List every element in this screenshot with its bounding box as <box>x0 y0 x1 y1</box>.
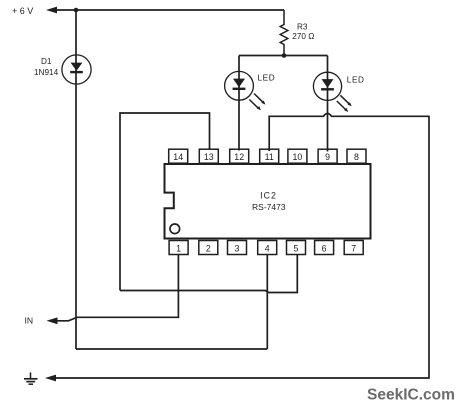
wire LED rail <box>239 55 328 57</box>
pin 1 <box>169 241 188 255</box>
diode D1 <box>62 55 91 84</box>
junction node top rail / D1 <box>74 8 79 13</box>
svg-text:4: 4 <box>265 244 270 254</box>
svg-text:R3: R3 <box>297 22 308 31</box>
svg-text:1: 1 <box>176 244 181 254</box>
pin 13 <box>199 149 218 163</box>
wire pin 11 wrap (up, right, down right side, bottom to ground) <box>54 113 429 378</box>
pin 14 <box>169 149 188 163</box>
svg-text:9: 9 <box>325 152 330 162</box>
svg-text:8: 8 <box>354 152 359 162</box>
ground <box>24 372 38 384</box>
svg-text:LED: LED <box>347 75 365 84</box>
wire pin 13 wrap (up, left, down to bottom web) <box>120 113 210 291</box>
arrow IN <box>47 317 58 324</box>
wire LED2 vertical (rail to pin 9) <box>327 56 329 152</box>
wire pin 1 vertical to IN <box>54 254 178 321</box>
svg-text:+ 6 V: + 6 V <box>12 6 33 16</box>
wire LED1 vertical (rail to pin 12) <box>238 56 240 151</box>
pin 6 <box>315 241 334 255</box>
svg-text:D1: D1 <box>41 57 52 66</box>
junction node R3 / LED rail <box>282 53 287 58</box>
svg-text:11: 11 <box>265 152 274 162</box>
LED LED2 <box>313 72 351 112</box>
svg-text:RS-7473: RS-7473 <box>252 202 286 212</box>
pin 3 <box>228 241 247 255</box>
svg-text:3: 3 <box>235 244 240 254</box>
pin 2 <box>199 241 218 255</box>
svg-text:13: 13 <box>204 152 214 162</box>
wire D1 branch vertical <box>75 10 77 349</box>
svg-text:6: 6 <box>322 244 327 254</box>
LED LED1 <box>225 71 266 110</box>
svg-text:LED: LED <box>258 74 276 83</box>
svg-text:2: 2 <box>206 244 211 254</box>
wire pin 4 vertical <box>266 254 268 349</box>
svg-text:270 Ω: 270 Ω <box>292 32 314 41</box>
wire top supply rail <box>54 9 284 11</box>
svg-text:14: 14 <box>173 152 183 162</box>
power arrow <box>46 7 57 14</box>
pin 1 indicator circle <box>170 224 180 234</box>
pin 11 <box>260 149 279 163</box>
svg-text:IC2: IC2 <box>260 191 277 201</box>
resistor R3 <box>280 10 288 56</box>
svg-text:5: 5 <box>294 244 299 254</box>
pin 8 <box>347 149 366 163</box>
svg-text:12: 12 <box>234 152 244 162</box>
arrow ground lead <box>45 375 56 382</box>
wire bottom web horizontal with pin 5 drop <box>120 254 297 293</box>
pin 9 <box>318 149 337 163</box>
pin 7 <box>344 241 363 255</box>
svg-text:10: 10 <box>293 152 303 162</box>
pin 4 <box>258 241 277 255</box>
svg-text:1N914: 1N914 <box>34 68 59 77</box>
pin 10 <box>288 149 307 163</box>
pin 5 <box>287 241 306 255</box>
wire bottom-left horizontal (D1 to pin 4) <box>76 348 267 350</box>
op-amp IC2 body <box>165 164 371 239</box>
pin 12 <box>230 149 249 163</box>
svg-text:IN: IN <box>25 315 34 325</box>
svg-text:7: 7 <box>351 244 356 254</box>
svg-text:SeekIC.com: SeekIC.com <box>367 387 455 404</box>
